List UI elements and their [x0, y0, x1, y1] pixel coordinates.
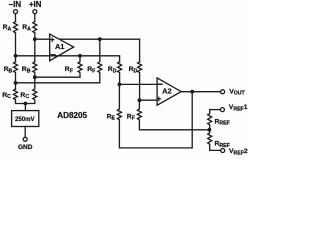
- net label VREF1: [229, 104, 248, 112]
- resistor RB (right): [33, 62, 37, 77]
- junction +IN node: [33, 37, 37, 41]
- junction RF2 to -IN column: [14, 81, 18, 85]
- svg-text:+IN: +IN: [29, 0, 42, 9]
- terminal VOUT: [221, 90, 225, 94]
- wire 250mV to GND: [24, 127, 26, 138]
- svg-text:A2: A2: [162, 87, 171, 96]
- wire A2 output to VOUT: [181, 91, 220, 93]
- resistor RA (left): [14, 22, 18, 33]
- junction A2 plus node: [138, 98, 142, 102]
- svg-text:250mV: 250mV: [15, 116, 36, 123]
- wire RC left branch: [15, 83, 17, 89]
- junction -IN node: [14, 54, 18, 58]
- op-amp A2: [157, 78, 181, 105]
- part label AD8205: [57, 111, 87, 120]
- op-amp A1: [50, 34, 74, 61]
- terminal -IN: [14, 10, 18, 14]
- junction RF1 top: [78, 54, 82, 58]
- A2 minus sign: [158, 83, 162, 85]
- resistor RE: [117, 84, 192, 147]
- wire L2: A1 minus input line to RD1: [16, 56, 120, 62]
- junction RF1 to +IN column: [33, 75, 37, 79]
- wire VREF1 to RREF1: [210, 110, 221, 114]
- wire +IN to RA: [34, 14, 36, 22]
- node +IN label: [29, 0, 42, 9]
- 250mV reference block: [12, 111, 39, 127]
- junction RREF midpoint: [208, 128, 212, 132]
- resistor RREF2: [208, 130, 221, 151]
- resistor RF2: [16, 39, 102, 83]
- wire RB left branch: [15, 56, 17, 62]
- A1 minus sign: [51, 54, 55, 56]
- wire L3: A2 minus input: [119, 83, 157, 85]
- ground terminal: [23, 137, 27, 141]
- ground GND label: [18, 144, 33, 151]
- junction RC common node: [24, 102, 28, 106]
- wire to 250mV block: [24, 104, 26, 111]
- wire RA to A1 plus node: [34, 33, 36, 39]
- resistor RB (left): [14, 62, 18, 83]
- terminal VREF1: [220, 108, 224, 112]
- resistor RD2: [138, 62, 142, 100]
- wire L4: A2 plus input: [139, 99, 157, 101]
- wire RB right branch: [34, 39, 36, 62]
- resistor RC (right): [25, 77, 36, 103]
- resistor RD1: [118, 62, 122, 85]
- resistor RF3: [137, 100, 209, 130]
- junction RF2 top: [98, 37, 102, 41]
- terminal +IN: [33, 10, 37, 14]
- svg-text:A1: A1: [55, 42, 64, 51]
- wire L1: A1 plus input line to RD2: [35, 39, 140, 62]
- resistor RA (right): [33, 22, 37, 33]
- A1 plus sign: [51, 38, 54, 41]
- svg-text:GND: GND: [18, 144, 33, 151]
- net label VOUT: [229, 88, 245, 96]
- resistor RC (left): [14, 89, 26, 104]
- net label VREF2: [229, 148, 248, 156]
- svg-text:–IN: –IN: [9, 0, 22, 9]
- junction A2 output: [190, 90, 194, 94]
- node -IN label: [9, 0, 22, 9]
- resistor RREF1: [208, 114, 212, 130]
- wire RA to A1 minus node: [15, 33, 17, 56]
- resistor RF1: [35, 56, 82, 77]
- A2 plus sign: [157, 97, 160, 100]
- terminal VREF2: [221, 149, 225, 153]
- wire -IN to RA: [15, 14, 17, 22]
- junction A2 minus node: [118, 83, 122, 87]
- wire A2 feedback down: [191, 92, 193, 148]
- svg-text:AD8205: AD8205: [57, 111, 87, 120]
